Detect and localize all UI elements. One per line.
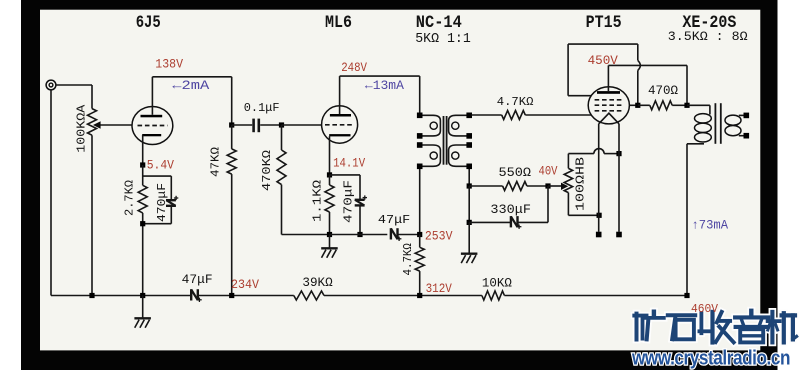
resistor 4.7KΩ (PT15 grid stopper) — [502, 111, 526, 120]
B+ rail 234V segment — [199, 295, 294, 297]
B+ rail 460V segment — [504, 295, 687, 297]
node coupling cap left — [229, 122, 234, 127]
450V supply wire rectangle — [568, 43, 638, 45]
ML6 plate lead — [339, 76, 341, 114]
ground bias network — [468, 222, 470, 253]
node pot top / filament right — [616, 151, 621, 156]
wire to ML6 grid — [282, 124, 322, 126]
wire wiper to 6J5 grid — [101, 124, 133, 126]
svg-text:www.crystalradio.cn: www.crystalradio.cn — [631, 348, 790, 370]
resistor 47KΩ (6J5 plate load) — [231, 125, 233, 149]
node 470Ω left (450V) — [635, 103, 640, 108]
node 40V wiper — [545, 183, 550, 188]
PT15 filament V — [599, 113, 619, 124]
node pot bottom on bus — [89, 293, 94, 298]
T1 secondary top winding — [449, 115, 467, 136]
6J5 plate bar — [141, 115, 163, 118]
ML6 cathode lead — [329, 136, 331, 175]
T1 secondary bottom winding — [449, 145, 467, 166]
resistor 1.1KΩ (ML6 cathode) — [329, 175, 331, 185]
node at 2.7K bottom — [140, 221, 145, 226]
wiper arrow to 100ΩHB — [548, 185, 562, 187]
ground bus left segment — [51, 295, 190, 297]
ground ML6 cathode — [329, 235, 331, 249]
node 470uF bottom (ML6) — [357, 232, 362, 237]
wire secondary return down — [468, 186, 470, 222]
resistor 550Ω — [469, 185, 502, 187]
wire ML6 plate to NC-14 primary top — [340, 75, 420, 77]
wire T1 secondary top to grid resistor — [472, 114, 502, 116]
resistor 470Ω — [638, 104, 650, 106]
wire plate rail down to coupling node — [231, 77, 233, 125]
node 550Ω left — [467, 183, 472, 188]
transformer T1 NC-14 primary top winding — [422, 115, 440, 136]
wire cathode to R-C pair — [142, 165, 144, 185]
capacitor 470μF (ML6 cathode bypass) — [355, 199, 365, 201]
wire pot bottom to left filament — [568, 214, 599, 216]
potentiometer VR1 100KΩA — [91, 85, 93, 109]
node 5.4V junction — [140, 162, 145, 167]
ML6 cathode bar — [329, 134, 350, 136]
wire jack to volume pot top — [56, 84, 92, 86]
resistor 4.7KΩ (dropper to 312V) — [419, 235, 421, 248]
T2 core — [714, 103, 716, 144]
transformer T2 XE-20S primary — [687, 104, 710, 106]
wire jack down to ground bus — [50, 90, 52, 295]
PT15 grid dashed lines — [595, 99, 622, 101]
output tube V3 PT15 envelope — [588, 87, 629, 124]
ground symbol main — [142, 296, 144, 319]
wire 470uF branch (ML6) — [330, 174, 361, 176]
node pot bottom / filament left — [597, 213, 602, 218]
resistor 2.7KΩ — [138, 185, 147, 213]
node 460V — [684, 293, 689, 298]
6J5 cathode lead down — [142, 135, 144, 165]
node cathode branch on bus — [140, 293, 145, 298]
wire cathode bottom rail — [330, 234, 388, 236]
node 14.1V junction — [327, 172, 332, 177]
node 253V — [417, 232, 422, 237]
capacitor 47μF (253V decoupling) — [390, 228, 392, 239]
hop over plate rail — [638, 60, 641, 70]
T1 terminals — [417, 113, 423, 119]
T2 secondary terminals — [744, 113, 750, 119]
capacitor 330μF (bias bypass) — [469, 221, 510, 223]
watermark 矿石收音机 white halo — [634, 312, 646, 320]
watermark 矿石收音机 navy strokes — [634, 314, 646, 318]
node 312V — [417, 293, 422, 298]
capacitor 0.1μF coupling — [232, 124, 253, 126]
ML6 grid dashed line — [325, 124, 354, 126]
PT15 filament lead right — [618, 124, 620, 232]
wire T2 primary bottom down to 460V node — [686, 144, 688, 296]
wire 6J5 plate top rail — [152, 76, 231, 78]
resistor 470KΩ (ML6 grid leak) — [281, 125, 283, 150]
capacitor 47μF (234V decoupling) — [190, 289, 192, 300]
VR1 wiper arrow — [93, 121, 101, 129]
ML6 plate bar — [330, 114, 351, 117]
wire pot top with hop to right filament — [568, 153, 594, 155]
node coupling cap right — [279, 122, 284, 127]
node 234V — [229, 293, 234, 298]
6J5 cathode bar — [142, 134, 161, 136]
svg-text:460V: 460V — [691, 302, 719, 316]
photo black border frame — [21, 0, 40, 370]
node 330uF left — [467, 220, 472, 225]
node 470Ω right / plate node — [684, 103, 689, 108]
resistor 10KΩ — [482, 291, 505, 300]
T1 primary bottom winding — [422, 145, 440, 166]
T1 core — [443, 116, 445, 165]
B+ rail 312V segment — [324, 295, 482, 297]
wire T1 primary bottom to 253V node — [419, 169, 421, 235]
wire 470uF branch top — [143, 175, 172, 177]
wire screen to 450V node — [629, 104, 637, 106]
6J5 plate lead — [151, 77, 153, 115]
triode V2 ML6 envelope — [322, 106, 358, 143]
input jack — [46, 80, 56, 90]
wire T1 secondary bottom down — [468, 169, 470, 186]
triode V1 6J5 envelope — [132, 107, 173, 145]
resistor 39KΩ — [294, 291, 324, 300]
capacitor 470μF (6J5 cathode bypass) — [166, 199, 176, 201]
T2 secondary — [725, 115, 741, 125]
6J5 grid dashed line — [138, 125, 168, 127]
PT15 filament lead left — [598, 124, 600, 232]
PT15 plate bar — [597, 91, 620, 94]
node ML6 cathode bottom — [327, 232, 332, 237]
wire 470uF branch bottom — [143, 223, 172, 225]
potentiometer 100ΩHB — [567, 154, 569, 169]
PT15 plate lead up and over to OPT — [607, 65, 609, 91]
